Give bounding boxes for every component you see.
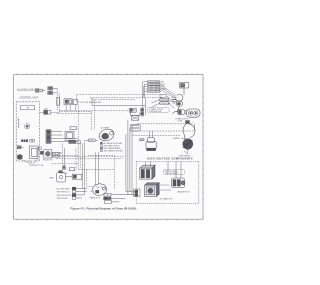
svg-text:CN-E: CN-E — [89, 140, 93, 142]
pilot lamp DS1 — [17, 146, 23, 149]
lead legend text — [103, 142, 123, 153]
wire W3 vertical riser x57 — [57, 88, 59, 111]
svg-text:WHT LAMP SOCKET: WHT LAMP SOCKET — [103, 144, 119, 147]
interlock switch S1 — [57, 98, 73, 106]
HV enclosure (dashed) — [136, 161, 199, 203]
terminal row labels — [148, 81, 166, 93]
svg-text:2 WHT NOISE FILTER: 2 WHT NOISE FILTER — [148, 84, 165, 86]
frame tick marks left — [13, 79, 14, 217]
oven lamp socket LS1 — [72, 174, 82, 179]
oven thermostat THS1 — [173, 121, 195, 154]
frame tick marks bottom — [17, 219, 202, 221]
lead legend rows — [100, 142, 102, 152]
wall plug P2 with cord — [173, 109, 188, 114]
wire W12 riser x78 — [76, 105, 80, 170]
stirrer motor contact label — [140, 139, 144, 141]
HV transformer note (dashed) — [163, 169, 184, 174]
wire W7 relay to riser — [52, 153, 78, 156]
svg-text:HIGH VOLTAGE COMPONENTS: HIGH VOLTAGE COMPONENTS — [147, 157, 193, 161]
svg-text:120V 60Hz 15A: 120V 60Hz 15A — [149, 110, 162, 113]
svg-text:TRANSFORMER: TRANSFORMER — [165, 172, 179, 175]
frame tick marks right — [203, 79, 204, 217]
power relay RY1 — [40, 150, 52, 158]
edge terminal tab on control unit — [39, 147, 41, 150]
thermal cutout TC1 — [60, 165, 74, 175]
wire W8b riser x94.4 — [91, 100, 94, 131]
HV transformer note text — [165, 170, 179, 175]
wire W11 right-side risers — [126, 120, 132, 162]
wire W5 dashed run to center — [59, 111, 91, 123]
fuse labels text — [160, 98, 171, 104]
blower connector CN-E — [84, 139, 97, 142]
terminal block TB1 label rows — [148, 81, 160, 93]
connector cluster CN-F — [72, 187, 87, 199]
wire W4 leads under control unit — [23, 158, 39, 163]
svg-text:FAN MOTOR: FAN MOTOR — [90, 196, 101, 199]
switch bank S11 outline keys — [30, 139, 35, 142]
connector CN-B receptacle pair — [48, 87, 53, 95]
svg-text:WHT INTERLOCK: WHT INTERLOCK — [57, 192, 71, 194]
wall receptacle J1 — [186, 109, 200, 117]
border frame with ruler ticks — [14, 75, 203, 220]
svg-text:CUTOUT: CUTOUT — [60, 173, 67, 175]
blower motor B1 — [98, 127, 116, 142]
interlock switch S2 — [73, 100, 82, 104]
wire W10 leads from terminal rows — [143, 82, 148, 108]
svg-text:THERMO.: THERMO. — [173, 138, 181, 140]
timer knob K1 — [25, 124, 30, 129]
svg-text:GRN GROUND: GRN GROUND — [57, 198, 69, 200]
noise filter FL1 — [179, 83, 188, 95]
svg-text:1 BLK NOISE FILTER: 1 BLK NOISE FILTER — [148, 81, 164, 83]
fan connector CN-G — [104, 193, 134, 203]
door switch S4 bracket — [65, 127, 80, 144]
connector CN-D multi-pin strip — [46, 130, 51, 144]
svg-text:CONTROL P.C.B.: CONTROL P.C.B. — [29, 165, 44, 167]
membrane keypad vertical label — [17, 119, 20, 128]
svg-text:CORD: CORD — [177, 121, 183, 123]
connector row labels — [57, 187, 72, 199]
wire W14b stirrer drops — [150, 131, 153, 138]
buzzer BZ1 — [17, 154, 23, 160]
frame tick marks top — [17, 73, 202, 75]
display window rectangle — [21, 105, 35, 110]
HV capacitor C1 — [145, 183, 160, 197]
HV transformer T1 — [140, 165, 155, 179]
supply note text — [149, 108, 163, 113]
wire W13 center horizontal runs — [52, 143, 125, 165]
svg-text:HV CAPACITOR: HV CAPACITOR — [160, 197, 173, 200]
wire W8 main bus upper — [57, 98, 163, 114]
svg-text:BLK FAN MOTOR LEAD: BLK FAN MOTOR LEAD — [103, 142, 122, 145]
wire tag labels on runs — [52, 152, 59, 157]
svg-text:RED MONITOR SW: RED MONITOR SW — [57, 195, 72, 197]
wire W6 fan-out from CN-D — [51, 132, 78, 142]
wire W9 right bus vertical — [144, 98, 146, 115]
wire W15 runs to fan — [78, 152, 114, 189]
supply note box (dashed) — [148, 108, 170, 113]
magnetron V1 — [171, 178, 185, 188]
oven lamp bulb LP1 — [49, 171, 72, 182]
fan motor M1 — [90, 184, 106, 196]
stirrer motor M2 — [146, 138, 156, 151]
transformer T3 primary box — [130, 124, 140, 131]
relay unit RY2 — [131, 112, 140, 120]
wire W14 dashed cross runs — [133, 124, 195, 136]
svg-text:GRN CHASSIS GROUND: GRN CHASSIS GROUND — [103, 150, 123, 153]
connector CN-A plug — [36, 89, 45, 92]
HV lead tags — [134, 189, 140, 197]
wire W12b drops to connector rows — [83, 142, 85, 195]
wire W8a interlock drops — [66, 104, 75, 111]
wire W10b diagonals to plug — [160, 84, 177, 97]
control unit enclosure (dashed) — [16, 102, 39, 161]
svg-text:MAGNETRON: MAGNETRON — [178, 190, 190, 193]
connector CN-C pair — [40, 108, 60, 114]
fuse holder F1 labels — [151, 95, 175, 108]
wire W2 from connector to vertical riser — [53, 88, 58, 93]
svg-text:FUSE BLOCK: FUSE BLOCK — [160, 103, 171, 105]
power cord plug P1 — [172, 94, 183, 112]
svg-text:CONTROL UNIT: CONTROL UNIT — [20, 97, 39, 100]
wire W16 into HV box — [126, 161, 181, 194]
inline connector CN-H on riser — [141, 108, 144, 116]
monitor switch S3 — [129, 108, 136, 112]
svg-text:RELAY RY1: RELAY RY1 — [43, 158, 53, 161]
svg-text:Figure 4-1. Pictorial Diagram: Figure 4-1. Pictorial Diagram of Oven (R… — [71, 207, 137, 211]
wire W1 power lead label — [17, 90, 35, 92]
switch bank S10 dark keys — [21, 139, 28, 142]
oven chassis outline (dashed) top edge — [77, 95, 164, 103]
svg-text:RED TRANSFORMER: RED TRANSFORMER — [103, 147, 121, 150]
control transformer T2 — [29, 146, 38, 158]
